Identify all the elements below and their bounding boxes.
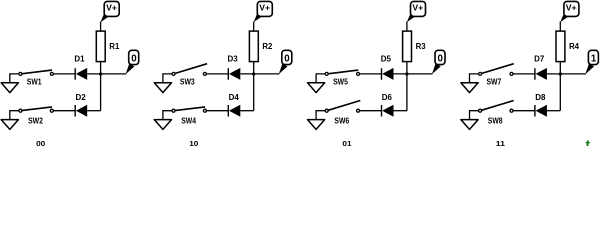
switch SW6 [325,101,360,126]
switch SW3 [172,64,207,87]
switch SW2 [19,107,53,126]
resistor R1 [96,31,120,61]
node output junction [99,72,102,75]
resistor R4 [556,31,580,61]
wire ground stub (SW7) [470,74,479,83]
svg-text:R4: R4 [569,42,580,51]
switch SW7 [479,64,514,87]
wire V+ to resistor [100,22,102,32]
svg-text:D1: D1 [74,54,85,63]
diode D8 [535,93,547,117]
svg-text:01: 01 [342,139,351,146]
ground (SW6) [308,120,325,130]
wire switch to diode [358,110,381,112]
wire switch to diode [358,73,381,75]
output label 0 [279,50,292,74]
node output junction [405,72,408,75]
svg-text:V+: V+ [412,4,423,13]
power flag V+ [560,1,579,22]
svg-text:V+: V+ [106,4,117,13]
diode D1 [74,54,87,80]
svg-text:SW8: SW8 [488,117,503,126]
power flag V+ [407,1,426,22]
diode D4 [228,93,240,117]
node output junction [559,72,562,75]
switch SW4 [172,107,206,126]
svg-text:SW1: SW1 [27,78,42,87]
switch SW5 [325,70,359,87]
switch SW1 [19,70,53,87]
svg-text:SW2: SW2 [28,117,43,126]
svg-text:D6: D6 [382,93,393,102]
diode D7 [534,54,547,80]
output label 0 [432,50,445,74]
power flag V+ [101,1,120,22]
svg-text:D2: D2 [76,93,87,102]
wire diode to vertical riser [87,110,100,112]
wire switch to diode [512,110,535,112]
ground (SW5) [308,83,325,93]
svg-text:10: 10 [189,139,198,146]
svg-text:V+: V+ [566,4,577,13]
svg-text:R2: R2 [262,42,273,51]
diode D3 [228,54,241,80]
wire switch to diode [512,73,535,75]
wire resistor to lower diode riser [406,62,408,111]
wire switch to diode [52,73,75,75]
ground (SW2) [1,120,18,130]
diode D6 [382,93,394,117]
node output junction [252,72,255,75]
wire resistor to lower diode riser [100,62,102,111]
svg-text:SW3: SW3 [180,78,195,87]
ground (SW7) [461,83,478,93]
wire V+ to resistor [559,22,561,32]
wire diode to output node [547,73,586,75]
svg-text:SW6: SW6 [334,117,349,126]
wire V+ to resistor [406,22,408,32]
resistor R2 [249,31,273,61]
diode D5 [381,54,394,80]
wire resistor to lower diode riser [559,62,561,111]
wire diode to output node [240,73,279,75]
diode D2 [75,93,87,117]
output label 0 [126,50,139,74]
svg-text:D4: D4 [229,93,240,102]
wire diode to vertical riser [547,110,560,112]
svg-text:SW4: SW4 [181,117,196,126]
wire ground stub (SW8) [470,111,479,120]
wire diode to output node [87,73,126,75]
wire ground stub (SW3) [163,74,172,83]
wire V+ to resistor [253,22,255,32]
svg-text:0: 0 [284,54,290,65]
wire diode to vertical riser [394,110,407,112]
switch SW8 [479,101,514,126]
wire ground stub (SW2) [10,111,19,120]
wire ground stub (SW1) [10,74,19,83]
svg-text:1: 1 [591,54,597,65]
wire switch to diode [52,110,75,112]
svg-text:V+: V+ [259,4,270,13]
wire ground stub (SW4) [163,111,172,120]
wire switch to diode [205,110,228,112]
svg-text:11: 11 [496,139,505,146]
svg-text:D8: D8 [535,93,546,102]
ground (SW4) [154,120,171,130]
svg-text:D5: D5 [381,54,392,63]
svg-text:D3: D3 [228,54,239,63]
svg-text:R1: R1 [109,42,120,51]
output label 1 [585,50,598,74]
svg-text:D7: D7 [534,54,544,63]
ground (SW8) [461,120,478,130]
ground (SW3) [154,83,171,93]
resistor R3 [403,31,427,61]
wire ground stub (SW6) [316,111,325,120]
ground (SW1) [1,83,18,93]
svg-text:0: 0 [438,54,444,65]
svg-text:00: 00 [36,139,45,146]
svg-text:0: 0 [131,54,137,65]
wire resistor to lower diode riser [253,62,255,111]
wire ground stub (SW5) [316,74,325,83]
svg-text:SW7: SW7 [487,78,502,87]
svg-text:SW5: SW5 [333,78,348,87]
wire diode to output node [394,73,433,75]
svg-text:R3: R3 [416,42,427,51]
svg-text:t: t [586,137,591,147]
wire switch to diode [205,73,228,75]
wire diode to vertical riser [240,110,253,112]
power flag V+ [254,1,273,22]
